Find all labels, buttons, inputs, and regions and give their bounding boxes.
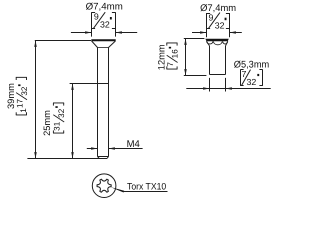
dimension D5.3 line bbox=[186, 88, 270, 90]
dimension 25mm line bbox=[72, 84, 74, 159]
screw SC1 tip bottom edge / extension line bbox=[27, 158, 107, 160]
dimension 39mm line bbox=[35, 41, 37, 159]
dimension D7.4 line (nut) bbox=[192, 32, 207, 34]
leader line to Torx label bbox=[110, 187, 124, 193]
dimension 39mm extension line (top) bbox=[35, 40, 91, 42]
dimension 12mm line bbox=[185, 39, 187, 76]
dimension D5.3 extension lines bbox=[209, 78, 211, 92]
screw SC1 head countersunk sides bbox=[92, 41, 98, 48]
dimension 12mm extension lines bbox=[184, 38, 205, 40]
svg-text:Ø7,4mm: Ø7,4mm bbox=[200, 3, 236, 14]
dimension M4 lines bbox=[87, 148, 98, 150]
sleeve nut N1 head underside scallops bbox=[207, 41, 213, 44]
svg-text:32: 32 bbox=[57, 108, 66, 118]
label 31/32 inch (rotated) bbox=[53, 103, 66, 133]
dimension D7.4 extension/bracket lines (screw) bbox=[91, 12, 93, 36]
torx icon circle bbox=[92, 174, 116, 198]
svg-text:31: 31 bbox=[53, 121, 62, 131]
svg-text:32: 32 bbox=[215, 20, 225, 30]
svg-text:17: 17 bbox=[16, 98, 25, 108]
sleeve nut N1 body bbox=[209, 46, 211, 75]
dimension D7.4 extension/bracket lines (nut) bbox=[206, 13, 208, 37]
svg-text:Torx TX10: Torx TX10 bbox=[127, 180, 166, 191]
svg-text:12mm: 12mm bbox=[157, 44, 167, 70]
screw SC1 tip chamfer bbox=[98, 156, 109, 158]
screw SC1 thread start line bbox=[70, 83, 109, 85]
svg-text:7: 7 bbox=[166, 62, 175, 67]
screw SC1 head top edge bbox=[91, 39, 115, 41]
svg-text:Ø7,4mm: Ø7,4mm bbox=[86, 2, 123, 13]
screw SC1 shank bbox=[97, 48, 99, 157]
sleeve nut N1 head (filled bar) bbox=[205, 39, 228, 42]
dimension D7.4 line (screw) bbox=[71, 32, 92, 34]
torx star bbox=[97, 179, 111, 192]
svg-text:9: 9 bbox=[209, 12, 214, 22]
label 7/16 inch (rotated) bbox=[166, 43, 179, 69]
svg-text:32: 32 bbox=[247, 77, 257, 87]
label 7/32 inch bracket box bbox=[240, 69, 242, 86]
label 1 17/32 inch (rotated) bbox=[16, 77, 29, 115]
svg-text:9: 9 bbox=[94, 12, 99, 22]
svg-text:32: 32 bbox=[20, 86, 29, 96]
svg-text:32: 32 bbox=[100, 20, 110, 30]
svg-text:25mm: 25mm bbox=[42, 110, 52, 136]
svg-text:Ø5,3mm: Ø5,3mm bbox=[234, 60, 270, 71]
svg-text:16: 16 bbox=[170, 49, 179, 59]
svg-text:M4: M4 bbox=[127, 139, 141, 150]
